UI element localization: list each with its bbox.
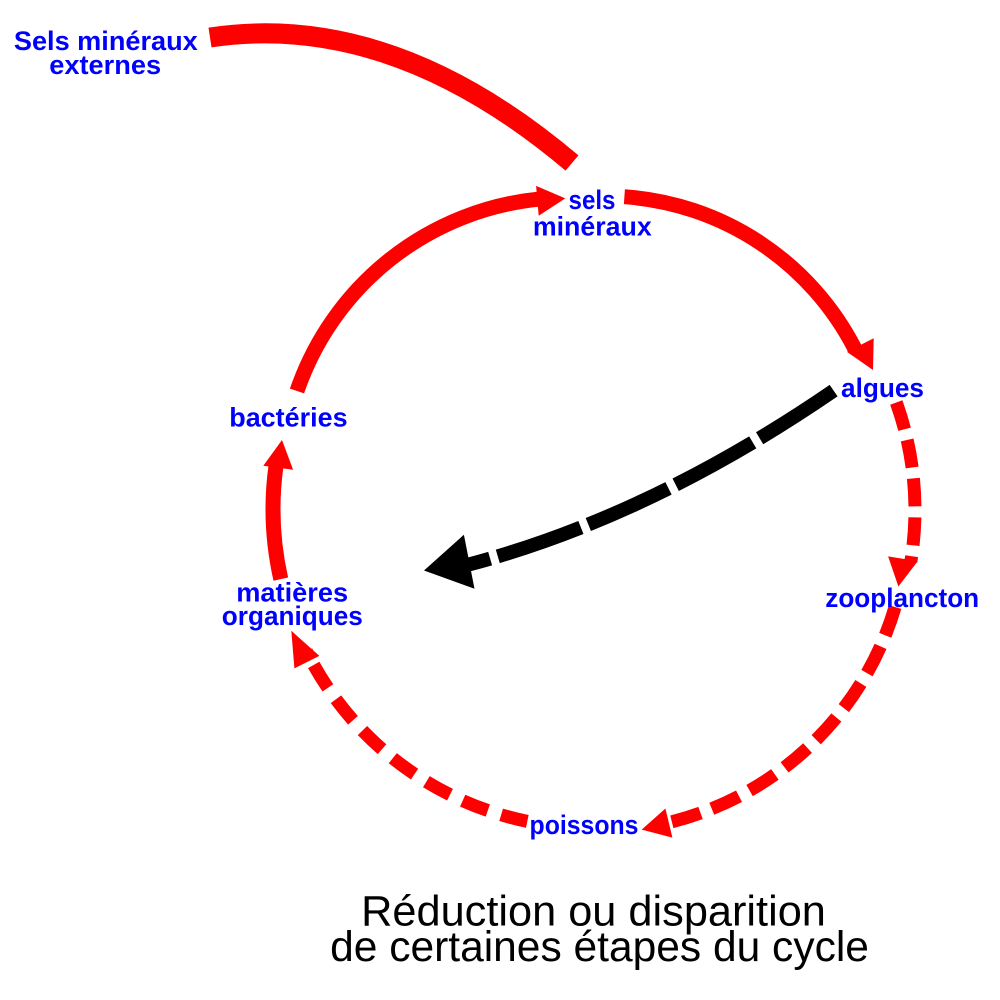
node: arrowhead at matieres organiques	[291, 631, 319, 669]
wire: dashed arc zooplancton -> poissons	[667, 607, 895, 823]
wire: dashed arc algues -> zooplancton	[896, 403, 915, 562]
wire: black dashed shortcut arrow algues -> center	[467, 389, 836, 565]
wire: external input arrow (Sels mineraux externes -> sels mineraux)	[210, 33, 572, 163]
node: arrowhead at algues	[847, 338, 874, 370]
node: arrowhead at bacteries	[263, 440, 293, 470]
wire: solid arc bacteries -> sels mineraux	[297, 199, 540, 391]
svg-text:algues: algues	[841, 373, 924, 403]
wire: solid arc matieres organiques -> bacteries	[273, 466, 281, 579]
svg-text:minéraux: minéraux	[533, 211, 652, 241]
svg-text:externes: externes	[49, 49, 161, 80]
svg-text:poissons: poissons	[530, 811, 639, 840]
node: arrowhead at sels mineraux	[536, 186, 565, 216]
svg-text:zooplancton: zooplancton	[825, 583, 979, 613]
svg-text:de certaines étapes du cycle: de certaines étapes du cycle	[330, 923, 869, 971]
wire: dashed arc poissons -> matieres organiques	[307, 651, 528, 821]
node: arrowhead at poissons	[642, 809, 673, 838]
node: arrowhead at zooplancton	[888, 556, 918, 586]
wire: solid arc sels mineraux -> algues	[624, 197, 855, 349]
node: black arrowhead	[424, 535, 475, 589]
svg-text:organiques: organiques	[222, 601, 363, 631]
svg-text:bactéries: bactéries	[229, 402, 347, 432]
